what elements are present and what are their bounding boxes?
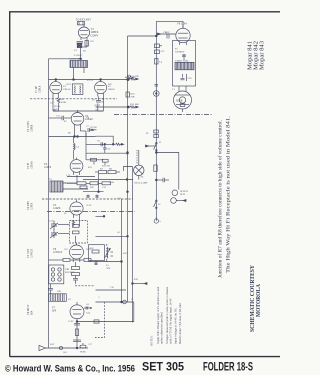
svg-text:R11 47K: R11 47K [130,75,139,78]
capacitor C19 inside box [182,54,186,60]
capacitor C7 at V4 [88,128,93,132]
svg-text:FIELD COIL: FIELD COIL [176,59,189,62]
tube V1 12BE6 converter [78,25,89,40]
wire: bus x=132.5 [124,167,133,323]
svg-text:12BL6: 12BL6 [39,85,42,93]
resistor R11 stub at y=79 [127,78,138,81]
wire: V2 V3 cathode drops to rail [53,97,103,112]
volume control R8 row [95,171,120,174]
spark plate C23 on A lead [154,44,162,54]
transformer T3 det coil [50,181,67,192]
model list Mopar [247,41,266,70]
svg-text:NOTES:: NOTES: [150,335,154,346]
receptacle J3 hi-way hifi [171,190,186,203]
battery plug P1 triangle [39,345,63,350]
svg-text:22K: 22K [131,96,135,99]
resistor R12 under V6 [72,218,79,227]
svg-text:V8 12X4: V8 12X4 [177,23,187,26]
svg-text:6.3V: 6.3V [165,32,170,34]
svg-text:12BE6: 12BE6 [31,124,34,132]
svg-text:105V: 105V [86,249,91,251]
svg-text:C2A: C2A [49,220,54,223]
svg-text:FUSE: FUSE [80,351,86,354]
tube V9 12X4 rectifier [176,26,190,46]
wire: antenna lead-in label TO ANT [76,19,91,22]
capacitor C11 grid of V4 [49,116,72,120]
wire: 6.3V heater stub [156,33,176,35]
value labels under V2 [50,99,66,112]
left margin stage labels [27,85,42,315]
capacitor C13 [48,284,53,294]
svg-text:MOTOROLA: MOTOROLA [256,283,262,317]
svg-text:Mopar 843: Mopar 843 [259,41,266,70]
svg-text:14V: 14V [63,352,67,354]
capacitor C18 on y=36 [167,34,169,39]
capacitor C24 at V8 plate [84,307,91,310]
choke L4 on A lead [155,59,158,65]
fuse F1 [80,343,86,348]
svg-text:BAT: BAT [50,343,55,346]
schematic courtesy motorola [250,264,262,332]
wire: left bus vertical [48,59,50,348]
wire: dashed vertical x=104.5 [95,302,105,338]
tick on A lead [155,85,159,87]
capacitor C15 on V8 line [74,324,80,326]
svg-text:12BA6: 12BA6 [108,88,116,91]
wire: power feed to rectifier [156,21,183,221]
svg-text:105V: 105V [66,84,71,86]
connector M2 on A lead [154,91,160,97]
wire: det stage horizontals [67,175,95,189]
resistor R15 [102,159,108,165]
capacitor C12 [73,276,78,285]
svg-text:12AT6: 12AT6 [44,166,52,169]
switch S1 on A lead [154,142,158,151]
resistor R18 on V8 line [75,329,78,336]
wire: V6 pin wires [96,215,129,237]
svg-text:ADJ: ADJ [106,267,110,270]
wire: arrow stub y=283.5 [132,283,147,285]
label V2 [63,85,71,91]
output transformer box [173,41,196,87]
wire: audio line y=179.5 [83,179,133,181]
wire: V4 pin wires [75,127,87,137]
receptacle labels [180,190,188,196]
capacitor C9 on net B [101,142,102,146]
tube V7 oscillator [70,243,84,262]
wire: bus x=121.5 [121,199,123,302]
wire: y=290 line [96,289,127,291]
svg-text:12AE6: 12AE6 [53,207,61,210]
tube V4 12AT6 det [71,110,84,127]
buzzer transformer T4 [49,294,67,302]
svg-text:98V: 98V [108,84,112,86]
tube V5 12AT6 [70,158,83,176]
tube V3 12BA6 2nd IF [95,80,107,97]
wire: junction net at y=136.5 [49,136,96,138]
wire: receptacle feed [155,152,178,190]
svg-text:85V: 85V [88,167,92,169]
footer copyright [5,360,253,374]
wire: dash at 285.5 [75,285,95,287]
svg-text:DIAL LAMP: DIAL LAMP [135,182,149,185]
capacitor C10 below [103,144,106,153]
svg-text:12AT6: 12AT6 [31,202,34,210]
svg-text:12V6GT: 12V6GT [31,248,34,258]
svg-text:12V: 12V [90,41,94,43]
wire: b+ from rectifier y=36 [128,35,158,37]
svg-text:12BA6: 12BA6 [63,88,71,91]
speaker SP1 [174,86,192,112]
svg-text:R13 10K: R13 10K [130,103,139,106]
svg-text:1/2 T2: 1/2 T2 [87,79,94,82]
svg-text:12.6V: 12.6V [86,205,92,207]
switch S2 on A lead [154,200,158,209]
osc coil T1 [70,61,88,80]
coil L1 [77,44,82,48]
svg-text:0Z4: 0Z4 [31,310,34,315]
svg-text:© Howard W. Sams & Co., Inc. 1: © Howard W. Sams & Co., Inc. 1956 [5,363,135,373]
capacitor C6 below V3 [96,97,101,103]
svg-text:VIB: VIB [57,291,61,293]
border frame [10,12,280,357]
svg-text:TO EXT ANT: TO EXT ANT [76,19,91,22]
wire: dash-dot shield line y=116.5 [114,114,213,116]
svg-text:470K: 470K [61,102,66,104]
wire: y=191.7 line [83,191,104,193]
wire: avc dashed line [30,98,117,100]
resistor R14 [91,158,97,164]
capacitor C8 top [91,129,97,130]
svg-text:1.2V: 1.2V [66,175,71,177]
vibrator socket X1 [49,265,64,284]
dashed tuner box [70,221,88,244]
wire: osc net y=261.5 [89,261,123,266]
pilot lamp I1 [134,150,144,180]
svg-text:12V: 12V [64,249,68,251]
resistor row under V7 [49,259,92,262]
svg-text:SPKR: SPKR [176,100,183,103]
svg-text:The High Way Hi Fi Receptacle: The High Way Hi Fi Receptacle is not use… [226,116,232,273]
wire: y=159.8 net [86,159,103,161]
svg-text:13.8V: 13.8V [68,321,74,323]
field coil L3 hatched [175,62,194,70]
connector at left of y=322.5 [94,320,99,323]
wire: dash link volume [42,198,133,200]
transformer T2 IF [72,84,83,95]
svg-text:unless otherwise specified.: unless otherwise specified. [160,312,164,344]
svg-text:12V6GT: 12V6GT [53,251,63,254]
antenna connector M1 [78,22,85,25]
svg-text:47K: 47K [123,253,127,255]
svg-text:6V: 6V [64,213,67,215]
wire: grid line from V1 down and left [49,58,82,60]
svg-text:12BA6: 12BA6 [31,161,34,169]
osc coil assembly L5 [89,244,114,262]
svg-text:CONV: CONV [91,34,99,37]
wire: y=302 line with jack J2 [76,300,134,322]
wire: net A corner [96,136,114,144]
svg-text:HI WAY: HI WAY [180,190,188,193]
tube V8 output [70,302,84,348]
wire: x=86 drop [85,133,87,160]
svg-text:Junction of R7 and R8 therefor: Junction of R7 and R8 therefore connects… [217,120,224,278]
resistor R20 on A lead [154,165,157,171]
svg-text:SET 305: SET 305 [142,360,184,374]
tuning gang C2 [50,221,58,239]
svg-text:VOL: VOL [109,181,115,184]
fine print notes block [150,286,184,346]
coil L2 [74,137,76,160]
wire: cathode return y=111 [53,110,103,112]
resistor R12 stub at y=107 [96,106,139,108]
wire: net B with arrow [86,143,124,145]
svg-text:L1 OSC: L1 OSC [74,54,83,57]
wire: dash-dot shield line y=211.5 [47,211,135,213]
svg-text:0Z4: 0Z4 [52,310,57,313]
wire: y=153.2 line [86,152,128,154]
spark plate C16 [73,340,81,342]
svg-text:R15 1M: R15 1M [102,166,110,168]
resistor R15 [72,262,80,276]
wire: gang to tuner box links [58,225,70,234]
voltage readings micro labels [50,41,176,354]
svg-text:with a VTVM. No signal input.: with a VTVM. No signal input. 14.4V [169,297,173,344]
capacitor C1 cluster below V1 [77,40,89,59]
spark plate C21 on A lead [154,130,159,138]
connector A-lead end [154,217,158,223]
resistor R13 inside tuner box [73,225,80,244]
capacitor C20 below coil [181,74,187,81]
wire: arrow stub at y=146 [146,145,157,147]
wire: main center bus x=127.5 [127,36,129,302]
label V3 [108,85,116,91]
resistor R2 below V2 [53,97,60,105]
svg-text:A OSC COIL: A OSC COIL [69,58,83,61]
tube V6 12AT6 audio [70,200,83,219]
wire: lamp shaft dashes [136,150,138,164]
wire: bottom lead y=348 [46,347,89,349]
capacitor C22 stub [155,178,169,182]
resistor R10 on bus [126,92,129,97]
svg-text:HI FI: HI FI [180,194,185,196]
svg-text:FOLDER 18-S: FOLDER 18-S [203,360,253,374]
svg-text:C8 250: C8 250 [90,127,98,129]
note text: high way hi fi [217,116,232,278]
capacitor C9 cluster [86,195,98,199]
resistor R4 on rail [125,76,135,79]
wire: B+ rail top of IF section [49,79,128,81]
value labels under V3 [92,99,105,112]
svg-text:0V: 0V [64,121,67,123]
tube V2 12BA6 IF amp [50,80,62,97]
resistor R7 row [67,182,111,189]
wire: pot wiper drop [98,174,100,193]
svg-text:OUTPUT: OUTPUT [175,51,185,54]
